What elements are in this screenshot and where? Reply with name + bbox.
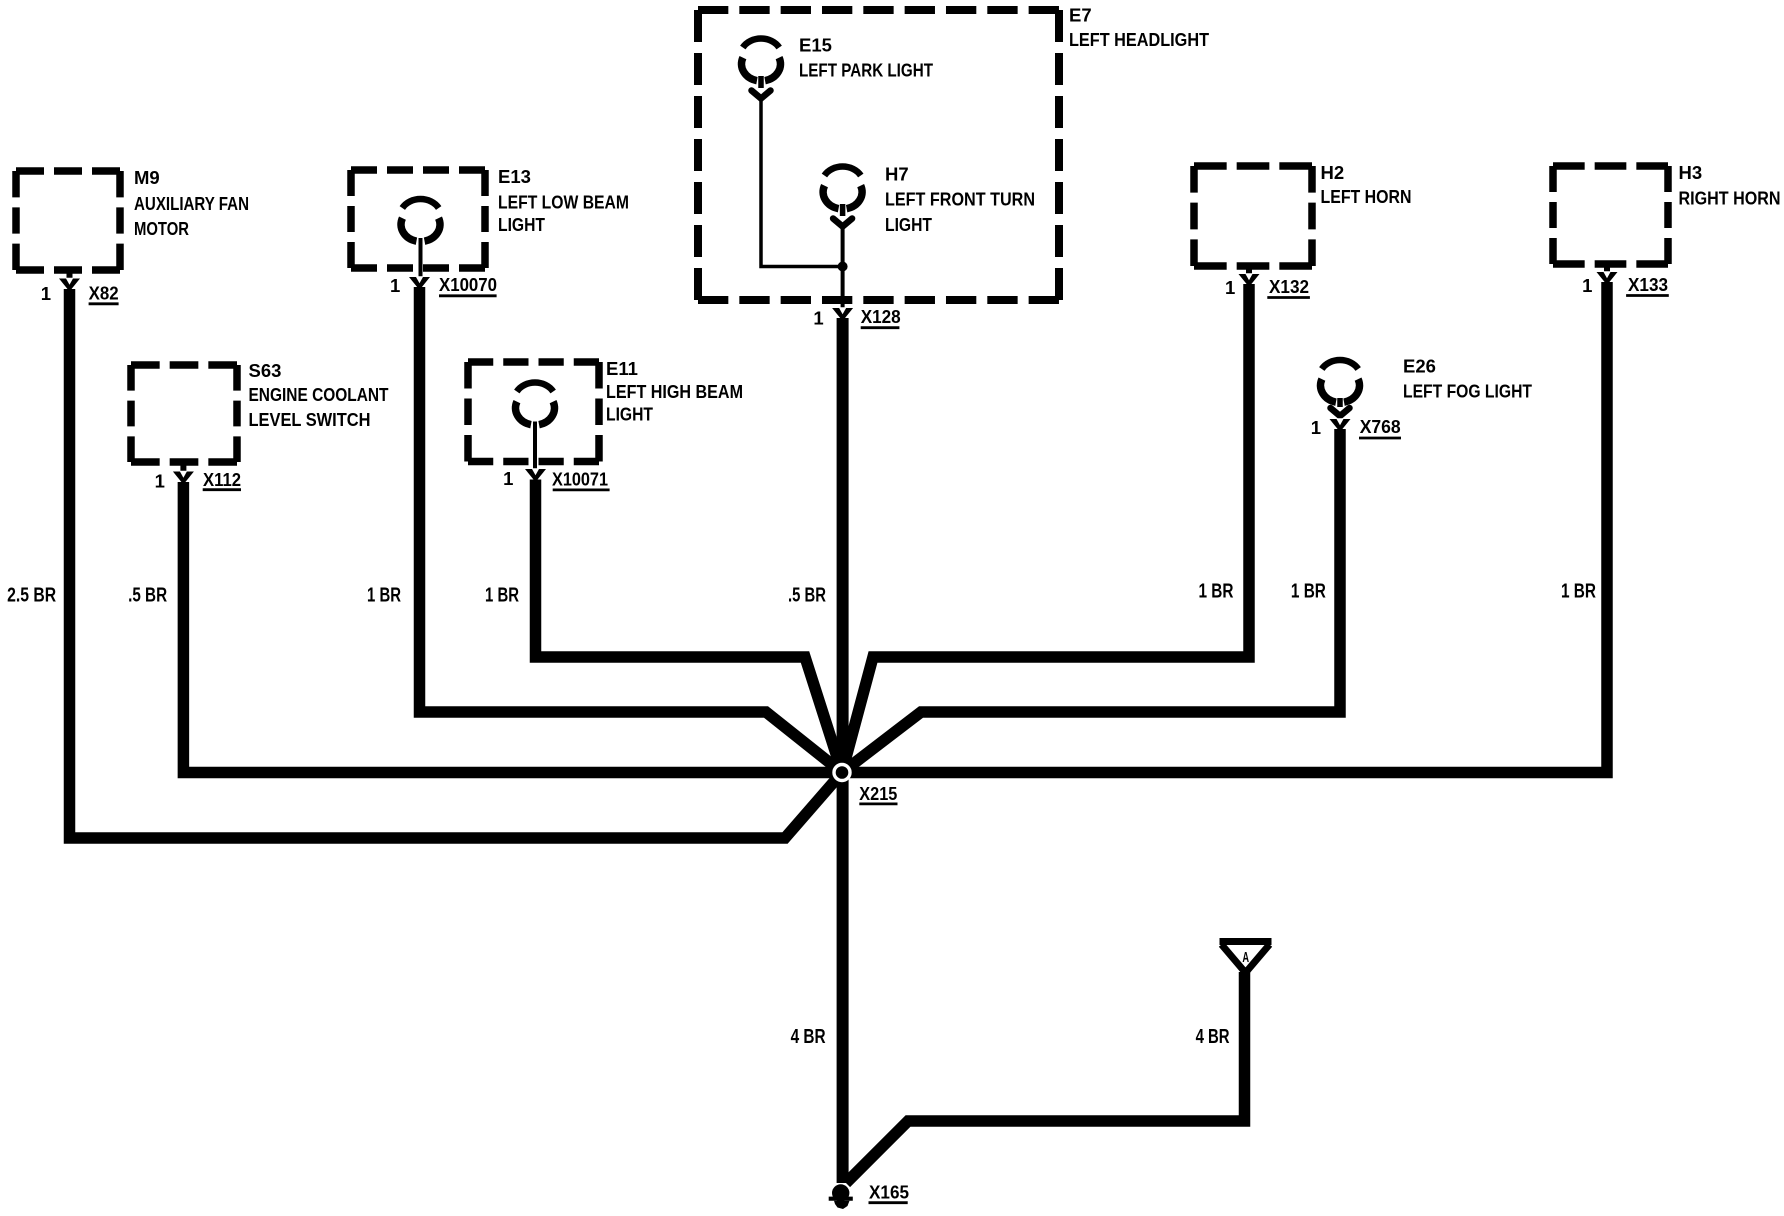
wire 1 BR from X10071 to node X215 <box>536 480 843 773</box>
label X132 <box>1267 276 1310 298</box>
component box E11 <box>468 362 599 462</box>
wire H7 to connector X128 <box>841 227 845 309</box>
svg-text:1: 1 <box>41 283 51 304</box>
svg-text:1: 1 <box>503 468 513 489</box>
lamp symbol E11 bulb <box>515 382 554 424</box>
connector X133 arrow <box>1597 271 1618 285</box>
E26 bulb stub <box>1337 398 1343 407</box>
svg-text:LEFT FRONT TURN: LEFT FRONT TURN <box>885 189 1035 210</box>
svg-text:E7: E7 <box>1069 5 1092 26</box>
wire .5 BR from X112 to node X215 <box>183 482 842 773</box>
svg-text:E11: E11 <box>606 358 638 379</box>
connector X112 arrow <box>173 471 194 485</box>
component box M9 <box>16 171 120 270</box>
label X768 <box>1359 416 1401 438</box>
svg-text:ENGINE COOLANT: ENGINE COOLANT <box>249 384 390 405</box>
svg-text:1: 1 <box>1582 275 1592 296</box>
svg-text:1: 1 <box>1225 277 1235 298</box>
component box H2 <box>1194 166 1312 266</box>
H7 bulb chevron terminal <box>833 219 852 227</box>
svg-text:.5 BR: .5 BR <box>788 585 826 607</box>
svg-text:H2: H2 <box>1321 162 1345 183</box>
lamp symbol E13 bulb <box>401 199 440 241</box>
svg-text:M9: M9 <box>134 167 160 188</box>
svg-text:E15: E15 <box>799 35 832 56</box>
label H3 RIGHT HORN <box>1679 162 1781 209</box>
svg-text:E26: E26 <box>1403 356 1436 377</box>
E15 bulb stub <box>758 76 764 88</box>
label E15 LEFT PARK LIGHT <box>799 35 934 81</box>
svg-text:X132: X132 <box>1269 276 1309 297</box>
label E26 LEFT FOG LIGHT <box>1403 356 1533 402</box>
node X215 junction ring <box>834 765 850 781</box>
label H7 LEFT FRONT TURN LIGHT <box>885 164 1035 236</box>
connector X133 stub <box>1604 264 1610 273</box>
svg-text:1 BR: 1 BR <box>1199 580 1234 602</box>
wire 1 BR from X10070 to node X215 <box>420 287 843 773</box>
svg-text:LEFT FOG LIGHT: LEFT FOG LIGHT <box>1403 381 1533 402</box>
svg-text:1: 1 <box>1311 417 1321 438</box>
svg-text:X112: X112 <box>203 469 241 490</box>
connector X112 stub <box>180 462 186 472</box>
label E11 LEFT HIGH BEAM LIGHT <box>606 358 743 425</box>
wire 1 BR from X132 to node X215 <box>842 284 1249 773</box>
H7 bulb stub <box>840 204 846 216</box>
svg-text:4 BR: 4 BR <box>791 1026 826 1048</box>
svg-text:1: 1 <box>155 470 165 491</box>
lamp symbol E15 bulb <box>741 38 780 80</box>
svg-text:A: A <box>1242 949 1249 966</box>
svg-text:MOTOR: MOTOR <box>134 218 189 239</box>
svg-text:X215: X215 <box>859 783 897 804</box>
svg-text:1 BR: 1 BR <box>1561 580 1596 602</box>
svg-text:S63: S63 <box>249 360 282 381</box>
component box H3 <box>1553 166 1668 264</box>
svg-text:1 BR: 1 BR <box>367 585 401 607</box>
svg-text:.5 BR: .5 BR <box>128 585 167 607</box>
label E7 LEFT HEADLIGHT <box>1069 5 1210 51</box>
label X128 <box>861 306 901 328</box>
svg-text:LIGHT: LIGHT <box>498 214 546 235</box>
svg-text:H3: H3 <box>1679 162 1703 183</box>
E15 bulb chevron terminal <box>752 91 771 99</box>
label H2 LEFT HORN <box>1321 162 1412 207</box>
svg-text:1: 1 <box>813 307 823 328</box>
svg-text:2.5 BR: 2.5 BR <box>7 585 56 607</box>
svg-text:X165: X165 <box>869 1182 909 1203</box>
svg-text:X768: X768 <box>1360 416 1401 437</box>
lamp symbol E26 bulb <box>1320 360 1359 402</box>
svg-text:LIGHT: LIGHT <box>606 404 654 425</box>
component box S63 <box>131 365 237 462</box>
label X10071 <box>552 469 610 490</box>
connector X128 arrow <box>832 307 853 321</box>
svg-text:X10070: X10070 <box>439 274 497 295</box>
component box E7 LEFT HEADLIGHT <box>698 10 1059 300</box>
lamp symbol H7 bulb <box>823 166 862 208</box>
connector X82 arrow <box>59 278 80 292</box>
label X112 <box>203 469 241 490</box>
svg-text:H7: H7 <box>885 164 909 185</box>
svg-text:X82: X82 <box>89 282 119 303</box>
svg-text:LEFT HIGH BEAM: LEFT HIGH BEAM <box>606 381 743 402</box>
wire E11 bulb to connector <box>533 422 537 471</box>
label E13 LEFT LOW BEAM LIGHT <box>498 166 629 235</box>
svg-text:4 BR: 4 BR <box>1196 1026 1230 1048</box>
svg-text:X128: X128 <box>861 306 901 327</box>
ground point X165 <box>829 1184 853 1209</box>
component box E13 <box>351 170 485 268</box>
svg-text:LEFT LOW BEAM: LEFT LOW BEAM <box>498 192 629 213</box>
connector X132 stub <box>1246 266 1252 275</box>
svg-text:E13: E13 <box>498 166 531 187</box>
svg-text:1 BR: 1 BR <box>485 585 519 607</box>
svg-text:X133: X133 <box>1628 274 1668 295</box>
label X215 <box>859 783 897 804</box>
label S63 ENGINE COOLANT LEVEL SWITCH <box>249 360 390 430</box>
label M9 AUXILIARY FAN MOTOR <box>134 167 249 239</box>
svg-text:LEFT PARK LIGHT: LEFT PARK LIGHT <box>799 60 934 81</box>
wire .5 BR / 4 BR trunk from X128 through X215 to X165 <box>837 318 849 1183</box>
wire E15 to node <box>761 99 843 267</box>
wire 2.5 BR from X82 to node X215 <box>70 289 843 838</box>
svg-text:AUXILIARY FAN: AUXILIARY FAN <box>134 193 249 214</box>
svg-text:LEFT HEADLIGHT: LEFT HEADLIGHT <box>1069 29 1210 50</box>
wire E13 bulb to connector <box>419 238 423 278</box>
connector X10070 arrow <box>409 276 430 290</box>
svg-text:LIGHT: LIGHT <box>885 214 933 235</box>
svg-text:LEVEL SWITCH: LEVEL SWITCH <box>249 409 371 430</box>
junction dot inside E7 <box>838 262 848 272</box>
svg-text:RIGHT HORN: RIGHT HORN <box>1679 188 1781 209</box>
connector X10071 arrow <box>525 468 546 482</box>
label X165 <box>869 1182 910 1203</box>
label X10070 <box>439 274 497 296</box>
wire 1 BR from X133 to node X215 <box>842 282 1607 773</box>
svg-text:1 BR: 1 BR <box>1291 580 1326 602</box>
connector X82 stub <box>67 270 73 279</box>
triangle symbol A (ground distribution reference) <box>1220 942 1272 973</box>
connector X132 arrow <box>1239 273 1260 287</box>
label X82 <box>89 282 119 303</box>
svg-text:X10071: X10071 <box>552 469 608 490</box>
connector X768 arrow <box>1330 418 1351 432</box>
E26 bulb chevron terminal <box>1331 408 1350 416</box>
svg-text:LEFT HORN: LEFT HORN <box>1321 186 1412 207</box>
svg-text:1: 1 <box>390 275 400 296</box>
wire 1 BR from X768 to node X215 <box>842 429 1340 773</box>
label X133 <box>1626 274 1669 296</box>
wire 4 BR from triangle A to ground X165 <box>846 972 1245 1183</box>
